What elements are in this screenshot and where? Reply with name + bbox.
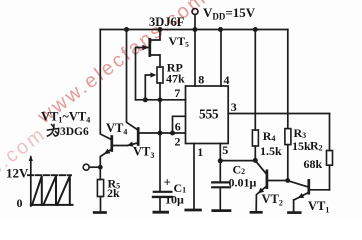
wire RP wiper [145, 75, 151, 100]
resistor R3 [287, 30, 289, 129]
transistor VT2 [266, 171, 269, 188]
junction dot R4 bottom [253, 158, 258, 163]
arrow VT1 emitter [298, 193, 305, 198]
ground C2 [213, 209, 230, 212]
node VDD terminal [192, 9, 198, 15]
ground VT2 [251, 211, 261, 214]
ground VT1 [289, 211, 301, 214]
label VT5 [169, 34, 190, 49]
potentiometer RP [157, 67, 163, 83]
arrow RP wiper [150, 72, 156, 77]
arrow VT2 emitter [258, 188, 265, 194]
pin label 4 [224, 73, 230, 87]
transistor VT5 (JFET 3DJ6F) [148, 39, 151, 55]
wire pin 4 [220, 30, 222, 87]
svg-text:VT1: VT1 [308, 199, 329, 215]
svg-text:1: 1 [197, 145, 203, 159]
capacitor C2 [212, 181, 228, 183]
svg-text:VDD=15V: VDD=15V [203, 5, 256, 22]
resistor R2 [329, 114, 331, 151]
ground pin1 [186, 209, 201, 212]
svg-text:VT4: VT4 [106, 121, 127, 137]
transistor VT1 [307, 180, 310, 193]
svg-text:6: 6 [175, 120, 181, 134]
wire pin 7 node [136, 99, 186, 101]
label 12V [6, 166, 29, 181]
wire VT5 gate [136, 48, 149, 100]
pin label 6 [175, 120, 181, 134]
svg-text:2k: 2k [107, 186, 120, 200]
wire VT2 base [255, 161, 266, 174]
svg-text:555: 555 [199, 106, 219, 121]
transistor VT4 [110, 137, 113, 151]
svg-text:C2: C2 [233, 163, 246, 177]
wire VT3 base / pins 2-6 [140, 132, 186, 134]
wire pin 3 output [228, 113, 329, 115]
pin label 8 [198, 73, 204, 87]
svg-text:0.01μ: 0.01μ [229, 176, 257, 190]
label VT2 [262, 192, 283, 208]
junction dot VT2 collector/R3 [285, 178, 290, 183]
label C2 [229, 163, 257, 190]
pin label 5 [222, 143, 228, 157]
svg-text:47k: 47k [166, 71, 185, 85]
junction dot wiper [143, 97, 148, 102]
wire VDD stub [194, 15, 196, 30]
label VT4 [106, 121, 127, 137]
junction dot pin5 [218, 158, 223, 163]
wire VT4 emitter [100, 150, 111, 168]
svg-text:www.elecfans.com: www.elecfans.com [33, 0, 211, 129]
svg-text:15k: 15k [292, 139, 311, 153]
resistor R4 [254, 30, 256, 131]
junction dot drain at rail [158, 27, 163, 32]
arrow VT4 emitter [104, 149, 111, 155]
ground R5 [94, 211, 105, 214]
label VT3 [133, 145, 154, 161]
wire C1 rail [159, 100, 161, 192]
waveform axes [30, 157, 32, 206]
label R2 68k [304, 139, 323, 172]
svg-text:VT1~VT4: VT1~VT4 [41, 110, 90, 125]
wire to output terminal [89, 166, 100, 168]
label VDD=15V [203, 5, 256, 22]
label R5 2k [107, 177, 120, 201]
svg-text:5: 5 [222, 143, 228, 157]
junction dot base-rail [158, 131, 163, 136]
pin label 2 [175, 134, 181, 148]
svg-text:VT2: VT2 [262, 192, 283, 208]
label 0 [17, 196, 23, 210]
svg-text:3DG6: 3DG6 [60, 126, 89, 138]
wire pin 5 [219, 144, 221, 183]
ground C1 [154, 211, 168, 214]
junction dot RP bottom [158, 97, 163, 102]
wire top VDD rail [100, 29, 287, 31]
svg-text:10μ: 10μ [165, 193, 184, 207]
svg-text:0: 0 [17, 196, 23, 210]
pin label 1 [197, 145, 203, 159]
junction dot VDD/pin8 [193, 27, 198, 32]
label RP 47k [166, 61, 185, 86]
label VT1~VT4 type [41, 110, 90, 139]
junction dot R4 rail [253, 27, 258, 32]
wire VT1 base [288, 181, 308, 187]
waveform sawtooth [32, 176, 70, 205]
wire VT4 collector (left rail) [100, 30, 111, 140]
junction dot VT3 collector at rail [124, 27, 129, 32]
wire VT3 emitter [128, 143, 139, 146]
arrow waveform axis [29, 155, 33, 161]
arrow VT5 gate [142, 45, 148, 50]
svg-text:68k: 68k [304, 157, 323, 171]
waveform 12V dashed level [28, 174, 71, 176]
svg-text:VT5: VT5 [169, 34, 190, 49]
svg-text:3: 3 [231, 100, 237, 114]
glyph 为 [48, 125, 59, 137]
wire VT3 collector [127, 30, 138, 130]
svg-text:2: 2 [175, 134, 181, 148]
wire pin 1 [193, 144, 195, 210]
watermark www.elecfans.com [0, 0, 211, 188]
node output terminal [83, 164, 89, 170]
label C1 [164, 175, 187, 207]
wire pin 8 [194, 30, 196, 87]
svg-text:1.5k: 1.5k [260, 144, 282, 158]
junction dot output node [98, 165, 103, 170]
label R3 15k [292, 126, 311, 153]
svg-text:R4: R4 [263, 129, 276, 143]
label VT1 [308, 199, 329, 215]
svg-text:12V: 12V [6, 166, 29, 181]
capacitor C1 [154, 191, 172, 193]
pin label 7 [174, 86, 180, 100]
wire VT5 drain [151, 30, 160, 41]
resistor R5 [99, 167, 101, 179]
wire VT1 collector [310, 189, 330, 191]
svg-text:4: 4 [224, 73, 230, 87]
svg-text:7: 7 [174, 86, 180, 100]
pin label 3 [231, 100, 237, 114]
arrow VT3 emitter [127, 142, 134, 147]
svg-text:3DJ6F: 3DJ6F [149, 15, 185, 29]
svg-text:R2: R2 [310, 139, 323, 153]
svg-text:+: + [164, 175, 171, 190]
wire pin 6 bracket [173, 116, 186, 133]
svg-text:8: 8 [198, 73, 204, 87]
label R4 1.5k [260, 129, 282, 158]
svg-text:VT3: VT3 [133, 145, 154, 161]
wire VT2 emitter [256, 187, 266, 212]
op-amp U1 555 timer box [186, 86, 229, 144]
wire pin5 to R4/VT2 [220, 160, 255, 162]
wire VT5 source [151, 55, 160, 67]
junction dot pin6 bracket [170, 131, 175, 136]
transistor VT3 [137, 129, 140, 145]
wire VT1 emitter [294, 193, 308, 212]
wire VT2 collector [268, 180, 288, 182]
label 3DJ6F [149, 15, 185, 29]
junction dot pin4 rail [218, 27, 223, 32]
wire VT4 base from VT3 emitter [113, 145, 128, 147]
